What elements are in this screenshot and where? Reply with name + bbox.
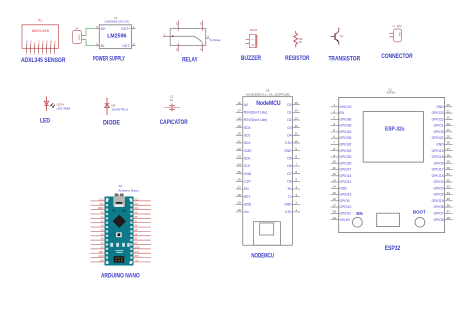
svg-text:11: 11 <box>333 166 336 170</box>
svg-text:34: 34 <box>447 191 451 195</box>
svg-text:GPIO5: GPIO5 <box>434 161 444 165</box>
relay bottom-left pin 3 <box>176 43 178 51</box>
NodeMCU USB port <box>254 222 281 246</box>
svg-text:POWER SUPPLY: POWER SUPPLY <box>93 55 126 62</box>
relay top-left pin 2 <box>176 21 178 31</box>
svg-text:3.3V: 3.3V <box>285 210 293 214</box>
svg-text:DIODE: DIODE <box>103 119 120 126</box>
svg-text:12: 12 <box>333 172 337 176</box>
svg-text:25: 25 <box>447 135 451 139</box>
svg-text:IN+: IN+ <box>101 27 106 31</box>
svg-text:P1: P1 <box>38 19 42 23</box>
svg-text:ESP32s: ESP32s <box>387 92 396 95</box>
LM2596 pin 1 OUT+ <box>121 26 135 31</box>
svg-text:3V3: 3V3 <box>100 204 105 206</box>
svg-text:INT1: INT1 <box>39 40 41 46</box>
svg-text:32: 32 <box>447 178 451 182</box>
svg-text:14: 14 <box>333 185 337 189</box>
svg-text:24: 24 <box>447 128 451 132</box>
svg-text:GPIO39: GPIO39 <box>339 124 351 128</box>
svg-text:23: 23 <box>238 155 242 159</box>
svg-text:A0: A0 <box>244 103 248 107</box>
svg-text:GPIO17: GPIO17 <box>432 168 444 172</box>
svg-text:CLK: CLK <box>244 164 251 168</box>
svg-text:GPIO4: GPIO4 <box>434 180 444 184</box>
connector P1 ADXL345 sensor <box>22 19 59 57</box>
svg-text:3.3V: 3.3V <box>285 141 293 145</box>
svg-text:10: 10 <box>295 139 299 143</box>
LM2596 pin 2 OUT- <box>122 43 135 48</box>
nano passives row <box>110 243 129 247</box>
ESP32 USB port <box>377 213 400 226</box>
LED emission arrows <box>50 103 55 108</box>
svg-text:ADXL345: ADXL345 <box>32 28 50 33</box>
LED LED4 LED-3MM <box>44 96 70 111</box>
svg-text:VIN 5V: VIN 5V <box>339 218 350 222</box>
svg-text:VCC: VCC <box>31 40 33 45</box>
nano pads left <box>106 200 133 263</box>
svg-text:RSV(Don't Use): RSV(Don't Use) <box>244 111 267 115</box>
svg-text:NodeMCU: NodeMCU <box>256 101 280 107</box>
svg-text:GPIO35: GPIO35 <box>339 136 351 140</box>
svg-text:GPIO25: GPIO25 <box>339 155 351 159</box>
svg-text:EN: EN <box>244 187 249 191</box>
svg-text:1u: 1u <box>170 98 174 102</box>
svg-text:16: 16 <box>238 101 242 105</box>
svg-text:RST: RST <box>244 195 251 199</box>
svg-text:A2: A2 <box>118 184 122 188</box>
capacitor C1 1u <box>164 95 180 112</box>
svg-text:3.3V: 3.3V <box>244 180 252 184</box>
relay left pin 1 common <box>163 33 170 36</box>
svg-text:15: 15 <box>295 101 299 105</box>
relay K1 5v relay <box>163 21 221 52</box>
svg-text:29: 29 <box>447 160 451 164</box>
svg-text:15: 15 <box>333 191 337 195</box>
svg-text:RST: RST <box>134 252 139 254</box>
svg-text:20: 20 <box>447 103 451 107</box>
svg-text:D10: D10 <box>134 208 139 210</box>
wire J4 pin1 to LM2596 IN+ <box>85 29 96 36</box>
nano reset button <box>116 232 122 237</box>
svg-text:RSV(Don't Use): RSV(Don't Use) <box>244 118 267 122</box>
svg-text:SD2: SD2 <box>244 134 251 138</box>
svg-text:GPIO21: GPIO21 <box>432 136 444 140</box>
relay top-right pin 5 <box>200 21 202 31</box>
NodeMCU right pins 15-1 <box>284 101 300 214</box>
svg-text:SD0: SD0 <box>244 157 251 161</box>
svg-text:21: 21 <box>447 109 451 113</box>
svg-text:LM2596 DC DC: LM2596 DC DC <box>105 19 131 23</box>
svg-text:CS: CS <box>35 42 37 46</box>
svg-text:GPIO1: GPIO1 <box>434 124 444 128</box>
svg-text:Arduino Nano: Arduino Nano <box>118 189 139 193</box>
svg-text:D7: D7 <box>287 172 291 176</box>
svg-text:J4: J4 <box>75 26 78 30</box>
buzzer pin 2 <box>246 43 250 45</box>
svg-text:GPIO13: GPIO13 <box>339 193 351 197</box>
diode D6 1N4007RLG <box>105 98 129 116</box>
svg-text:GPIO18: GPIO18 <box>432 155 444 159</box>
svg-text:D4: D4 <box>287 134 291 138</box>
svg-text:LM2596: LM2596 <box>107 34 127 40</box>
nano pcb board <box>105 197 134 266</box>
svg-text:GPIO22: GPIO22 <box>432 117 444 121</box>
svg-text:Q1: Q1 <box>340 34 344 38</box>
svg-text:GPIO23: GPIO23 <box>432 111 444 115</box>
svg-text:GND: GND <box>98 256 103 258</box>
svg-text:25: 25 <box>238 170 242 174</box>
svg-text:GND: GND <box>284 202 292 206</box>
svg-text:GND: GND <box>436 105 444 109</box>
nano ICSP header <box>114 256 124 262</box>
svg-text:GPIO11: GPIO11 <box>339 212 351 216</box>
buzzer BUZ1 <box>246 28 258 48</box>
svg-text:GPIO33: GPIO33 <box>339 149 351 153</box>
svg-text:RELAY: RELAY <box>182 56 198 63</box>
relay bottom-right pin 4 <box>200 43 202 51</box>
svg-text:SD3: SD3 <box>244 126 251 130</box>
svg-text:EN: EN <box>356 211 362 216</box>
svg-text:GPIO26: GPIO26 <box>339 161 351 165</box>
svg-text:D8: D8 <box>287 180 291 184</box>
svg-text:13: 13 <box>295 116 299 120</box>
nano left pin lines and labels <box>91 200 105 263</box>
svg-text:22: 22 <box>447 116 451 120</box>
svg-text:BAT: BAT <box>398 33 401 38</box>
svg-text:GPIO10: GPIO10 <box>339 205 351 209</box>
svg-text:33: 33 <box>447 185 451 189</box>
svg-text:GPIO36: GPIO36 <box>339 117 351 121</box>
svg-text:CONNECTOR: CONNECTOR <box>381 53 413 60</box>
svg-text:D3: D3 <box>287 126 291 130</box>
svg-text:18: 18 <box>238 116 242 120</box>
svg-text:5V: 5V <box>101 247 104 249</box>
svg-text:27: 27 <box>447 147 451 151</box>
svg-text:11: 11 <box>295 132 298 136</box>
LM2596 pin 4 IN- <box>95 43 105 48</box>
svg-text:ESP-32s: ESP-32s <box>385 126 405 132</box>
svg-text:5v Relay: 5v Relay <box>210 38 221 42</box>
svg-text:GPIO3: GPIO3 <box>434 130 444 134</box>
nano mini-usb <box>113 193 125 207</box>
svg-text:IN-: IN- <box>101 44 105 48</box>
svg-text:1k: 1k <box>299 40 303 44</box>
svg-text:38: 38 <box>447 216 451 220</box>
ESP32 left pins 1-19 <box>331 103 353 222</box>
svg-text:31: 31 <box>447 172 451 176</box>
nano mounting holes <box>106 198 132 264</box>
svg-text:D11: D11 <box>134 204 139 206</box>
svg-text:SDA: SDA <box>50 40 53 45</box>
svg-text:30: 30 <box>238 208 242 212</box>
svg-text:GPIO32: GPIO32 <box>339 143 351 147</box>
svg-text:TX1: TX1 <box>134 261 139 263</box>
svg-text:D1: D1 <box>287 111 291 115</box>
nano right pin lines and labels <box>134 200 151 263</box>
svg-text:35: 35 <box>447 197 451 201</box>
svg-text:GPIO34: GPIO34 <box>339 130 351 134</box>
svg-text:Rx: Rx <box>288 187 292 191</box>
svg-text:ESP32: ESP32 <box>385 245 401 252</box>
svg-text:D2: D2 <box>287 118 291 122</box>
junction dot <box>172 35 174 37</box>
svg-text:GPIO2: GPIO2 <box>434 193 444 197</box>
svg-text:M: M <box>252 43 254 47</box>
svg-text:GPIO7: GPIO7 <box>434 212 444 216</box>
svg-text:GPIO19: GPIO19 <box>432 149 444 153</box>
svg-text:21: 21 <box>238 139 242 143</box>
svg-text:12V: 12V <box>396 24 401 28</box>
svg-text:INT2: INT2 <box>43 40 45 46</box>
svg-text:OUT+: OUT+ <box>121 27 130 31</box>
svg-text:GND: GND <box>134 247 139 249</box>
svg-text:NODEMCU_V1_ESP12E: NODEMCU_V1_ESP12E <box>246 92 290 96</box>
svg-text:17: 17 <box>333 203 337 207</box>
svg-text:23: 23 <box>447 122 451 126</box>
svg-text:ARDUINO NANO: ARDUINO NANO <box>101 273 140 280</box>
svg-text:26: 26 <box>447 141 451 145</box>
svg-text:BUZZER: BUZZER <box>241 55 262 62</box>
svg-text:36: 36 <box>447 203 451 207</box>
svg-text:GND: GND <box>436 143 444 147</box>
svg-text:NODEMCU: NODEMCU <box>251 252 274 259</box>
svg-text:GPIO15: GPIO15 <box>432 199 444 203</box>
module A2 Arduino Nano <box>91 184 151 265</box>
svg-text:CMD: CMD <box>244 149 252 153</box>
svg-text:BOOT: BOOT <box>413 209 426 214</box>
svg-text:12: 12 <box>295 124 299 128</box>
svg-text:ADXL345 SENSOR: ADXL345 SENSOR <box>21 57 66 64</box>
svg-text:13: 13 <box>333 178 337 182</box>
nano small caps <box>112 210 126 212</box>
svg-text:10: 10 <box>333 160 337 164</box>
ESP32 right pins 20-38 <box>432 103 453 222</box>
svg-text:D12: D12 <box>134 200 139 202</box>
svg-text:D13: D13 <box>99 200 104 202</box>
ESP-32s chip outline <box>363 112 423 163</box>
svg-text:24: 24 <box>238 162 242 166</box>
svg-text:CAPICATOR: CAPICATOR <box>160 119 188 126</box>
svg-text:GPIO14: GPIO14 <box>339 174 351 178</box>
nano silkscreen text <box>116 250 124 253</box>
svg-text:14: 14 <box>295 109 299 113</box>
svg-text:20: 20 <box>238 132 242 136</box>
svg-text:LED: LED <box>40 117 50 124</box>
svg-text:GPIO12: GPIO12 <box>339 180 351 184</box>
svg-text:AREF: AREF <box>97 207 104 210</box>
12V pin 1 <box>389 32 393 34</box>
svg-text:16: 16 <box>333 197 337 201</box>
svg-text:GPIO16: GPIO16 <box>432 174 444 178</box>
svg-text:GPIO6: GPIO6 <box>434 218 444 222</box>
resistor R6 1k <box>294 31 303 47</box>
NodeMCU left pins 16-30 <box>236 101 267 214</box>
svg-text:27: 27 <box>238 185 242 189</box>
svg-text:LED-3MM: LED-3MM <box>57 106 71 110</box>
connector BT1 12V battery <box>389 24 401 42</box>
module U3 NODEMCU_V1_ESP12E <box>236 88 300 245</box>
transistor Q1 NPN <box>331 28 344 45</box>
svg-text:CON2: CON2 <box>78 34 80 41</box>
svg-text:29: 29 <box>238 201 242 205</box>
svg-text:19: 19 <box>238 124 242 128</box>
svg-text:18: 18 <box>333 210 337 214</box>
svg-text:GPIO27: GPIO27 <box>339 168 351 172</box>
ESP32 EN button <box>353 211 363 227</box>
svg-text:Vin: Vin <box>244 210 249 214</box>
svg-text:GND: GND <box>244 202 252 206</box>
svg-text:17: 17 <box>238 109 242 113</box>
svg-text:SD1: SD1 <box>244 141 251 145</box>
svg-text:VIN: VIN <box>100 261 104 263</box>
svg-text:GPIO0: GPIO0 <box>434 186 444 190</box>
svg-text:GND: GND <box>244 172 252 176</box>
svg-text:37: 37 <box>447 210 451 214</box>
LM2596 pin 3 IN+ <box>95 26 105 31</box>
svg-text:28: 28 <box>238 193 242 197</box>
svg-text:D6: D6 <box>287 164 291 168</box>
svg-text:OUT-: OUT- <box>122 44 130 48</box>
svg-text:GND: GND <box>27 40 29 45</box>
ESP32 BOOT button <box>413 209 426 227</box>
svg-text:RX0: RX0 <box>134 256 139 258</box>
svg-text:D0: D0 <box>287 103 291 107</box>
svg-text:GPIO8: GPIO8 <box>434 205 444 209</box>
svg-text:GND: GND <box>339 186 347 190</box>
svg-text:28: 28 <box>447 153 451 157</box>
svg-text:BUZ1: BUZ1 <box>250 28 258 32</box>
connector J4 (power input) <box>73 26 85 43</box>
12V pin 2 <box>389 36 393 38</box>
svg-text:Tx: Tx <box>288 195 292 199</box>
svg-text:GND: GND <box>284 149 292 153</box>
svg-text:1N4007RLG: 1N4007RLG <box>112 108 129 112</box>
svg-text:EN: EN <box>339 111 344 115</box>
svg-text:GPIO9: GPIO9 <box>339 199 349 203</box>
nano mcu chip (diamond) <box>113 215 126 228</box>
svg-text:TRANSISTOR: TRANSISTOR <box>328 55 360 62</box>
svg-text:RESISTOR: RESISTOR <box>285 55 310 62</box>
svg-text:SDO: SDO <box>47 40 49 45</box>
svg-text:VIN3.3V: VIN3.3V <box>339 105 352 109</box>
svg-text:D5: D5 <box>287 157 291 161</box>
relay contact arm <box>170 36 202 43</box>
svg-text:19: 19 <box>333 216 337 220</box>
module U2 ESP32s <box>331 88 453 233</box>
svg-text:26: 26 <box>238 178 242 182</box>
svg-text:22: 22 <box>238 147 242 151</box>
regulator U2 LM2596 <box>95 16 135 49</box>
buzzer pin 1 <box>246 38 250 40</box>
wire J4 pin2 to LM2596 IN- <box>85 39 96 46</box>
svg-text:30: 30 <box>447 166 451 170</box>
svg-text:RST: RST <box>99 252 104 254</box>
